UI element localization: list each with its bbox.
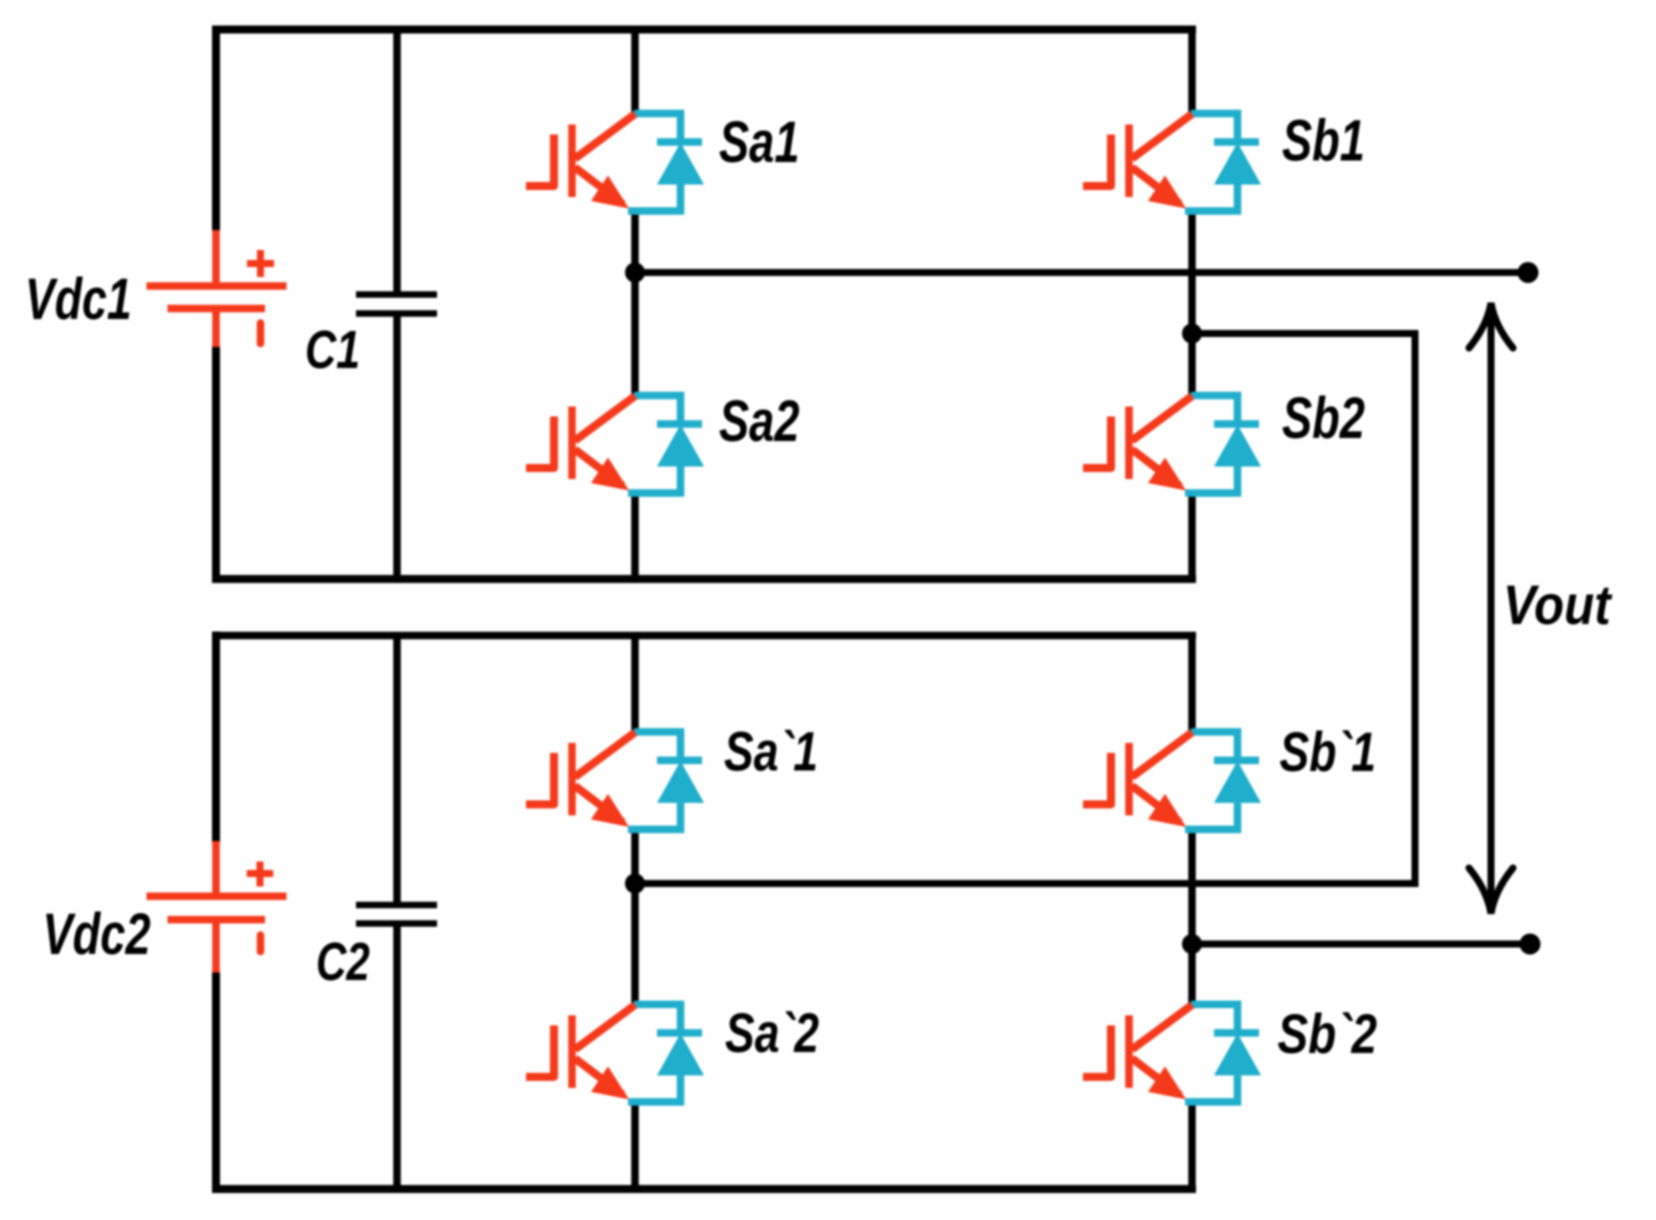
top bridge top rail <box>212 26 1196 34</box>
battery Vdc2 <box>147 841 287 973</box>
lower bridge bottom rail <box>212 1185 1196 1193</box>
lower bridge top rail <box>212 632 1196 640</box>
svg-text:C2: C2 <box>316 932 370 992</box>
output terminal top dot <box>1518 262 1539 283</box>
svg-text:Sb`2: Sb`2 <box>1278 1003 1377 1065</box>
transistor Sa2 <box>526 396 704 494</box>
node A dot <box>625 263 645 283</box>
transistor Sb'1 <box>1083 732 1261 830</box>
cascade wire <box>636 330 1415 884</box>
transistor Sb1 <box>1083 114 1261 212</box>
transistor Sa'1 <box>526 732 704 830</box>
capacitor C2 plates <box>356 905 437 924</box>
wire Sb-prime column <box>1188 636 1196 1190</box>
transistor Sb2 <box>1083 396 1261 494</box>
transistor Sb'2 <box>1083 1004 1261 1102</box>
Vout arrowhead bottom <box>1469 868 1513 914</box>
svg-text:Sb1: Sb1 <box>1282 109 1365 174</box>
top bridge left wire upper <box>212 26 220 232</box>
Vout arrowhead top <box>1469 303 1513 348</box>
svg-text:C1: C1 <box>305 321 360 381</box>
battery Vdc1 <box>147 230 287 347</box>
wire Sa-prime column <box>631 636 639 1190</box>
wire node B to cascade <box>1192 330 1415 337</box>
capacitor C1 plates <box>356 295 437 314</box>
Vout arrow line <box>1488 310 1495 907</box>
capacitor C1 leg lower <box>393 316 401 579</box>
svg-text:Sa1: Sa1 <box>719 111 799 176</box>
node B dot <box>1182 324 1202 344</box>
transistor Sa1 <box>526 114 704 212</box>
top bridge bottom rail <box>212 575 1196 583</box>
capacitor C2 leg upper <box>393 636 401 903</box>
transistor Sa'2 <box>526 1004 704 1102</box>
wire Sa column <box>631 30 639 580</box>
wire node A to output <box>635 269 1528 276</box>
lower bridge left wire upper <box>212 632 220 844</box>
svg-text:Vdc1: Vdc1 <box>25 266 132 331</box>
node A-prime dot <box>625 874 645 894</box>
svg-text:Vout: Vout <box>1503 574 1613 637</box>
capacitor C2 leg lower <box>393 926 401 1190</box>
top bridge left wire lower <box>212 346 220 583</box>
output terminal bottom dot <box>1520 934 1541 955</box>
svg-text:Sa2: Sa2 <box>719 390 800 455</box>
wire Sb column <box>1188 30 1196 580</box>
svg-text:Sa`2: Sa`2 <box>725 1001 819 1064</box>
wire node B-prime to output <box>1192 941 1530 948</box>
node B-prime dot <box>1182 934 1202 954</box>
svg-text:Sb`1: Sb`1 <box>1280 720 1376 783</box>
svg-text:Sb2: Sb2 <box>1282 387 1365 452</box>
lower bridge left wire lower <box>212 972 220 1193</box>
capacitor C1 leg upper <box>393 30 401 294</box>
svg-text:Sa`1: Sa`1 <box>724 719 818 782</box>
svg-text:Vdc2: Vdc2 <box>43 903 151 968</box>
